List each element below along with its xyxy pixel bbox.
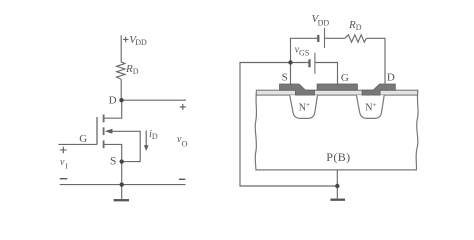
- wire: body lead with loop to source: [112, 131, 141, 161]
- battery vGS short plate: [308, 59, 310, 67]
- wire: node D to output terminal: [121, 99, 186, 101]
- metal contact S: [280, 84, 315, 95]
- wire: node to vGS battery: [291, 62, 309, 64]
- oxide layer: [256, 90, 417, 95]
- svg-text:iD: iD: [149, 129, 158, 141]
- transistor Q1 body arrow: [105, 129, 113, 134]
- ground symbol (right circuit): [330, 199, 345, 201]
- svg-text:vI: vI: [60, 157, 68, 170]
- wire: substrate to ground: [336, 170, 338, 199]
- wire: node to VDD battery (top riser and top wire): [291, 38, 318, 62]
- svg-text:vGS: vGS: [295, 45, 310, 58]
- svg-text:VDD: VDD: [312, 13, 330, 27]
- battery vGS long plate: [314, 53, 316, 74]
- wire: resistor to node D: [120, 79, 122, 100]
- node D junction dot: [119, 98, 123, 102]
- svg-text:P(B): P(B): [326, 150, 350, 164]
- wire: resistor to drain contact: [366, 38, 385, 84]
- metal contact D: [362, 84, 395, 95]
- svg-text:G: G: [341, 72, 349, 84]
- svg-text:S: S: [110, 155, 116, 167]
- svg-text:D: D: [387, 71, 395, 83]
- wire: battery to resistor: [325, 37, 345, 39]
- wire: bottom rail: [60, 184, 186, 186]
- transistor Q1 channel bar (drain): [103, 115, 105, 123]
- wire: node down to source contact: [290, 63, 292, 85]
- wire: ground stub (left circuit): [121, 185, 123, 199]
- battery VDD short plate: [317, 35, 319, 42]
- wire: vGS battery to gate contact: [316, 63, 338, 85]
- battery VDD long plate: [324, 28, 326, 48]
- node S junction dot: [120, 159, 124, 163]
- N+ well (source): [290, 95, 318, 118]
- transistor Q1 gate line: [96, 117, 98, 145]
- transistor Q1 channel bar (body): [103, 127, 105, 135]
- resistor R1 (RD, left circuit): [117, 62, 125, 79]
- wire: node left and down to ground rail: [240, 63, 337, 187]
- svg-text:RD: RD: [348, 19, 362, 32]
- transistor Q1 channel bar (source): [103, 140, 105, 148]
- label + (output): [180, 104, 186, 110]
- node: ground junction dot (right circuit): [335, 184, 339, 188]
- svg-text:VDD: VDD: [129, 34, 147, 47]
- metal contact G (gate electrode): [317, 84, 357, 90]
- junction dot on bottom rail: [120, 182, 124, 186]
- resistor R2 (RD, right circuit): [345, 35, 367, 42]
- svg-text:RD: RD: [125, 63, 139, 76]
- wire: VDD supply lead (left circuit): [120, 35, 122, 62]
- node: S junction dot (right circuit): [288, 60, 292, 64]
- svg-text:D: D: [109, 95, 117, 107]
- wire: gate input lead: [58, 143, 97, 145]
- label + (input): [60, 147, 67, 154]
- N+ well (drain): [356, 95, 384, 118]
- label minus (output): [179, 178, 185, 180]
- svg-text:vO: vO: [177, 134, 188, 149]
- wire: drain lead of Q1: [104, 100, 122, 118]
- wire: source node to bottom rail: [121, 162, 123, 185]
- label minus (input): [60, 178, 68, 180]
- ground symbol (left circuit): [114, 199, 129, 201]
- substrate P(B) body: [255, 90, 418, 170]
- wire: source lead of Q1: [104, 144, 122, 159]
- svg-text:S: S: [282, 72, 288, 84]
- label +VDD: [123, 37, 129, 43]
- svg-text:G: G: [79, 133, 87, 145]
- current arrow iD: [144, 130, 149, 151]
